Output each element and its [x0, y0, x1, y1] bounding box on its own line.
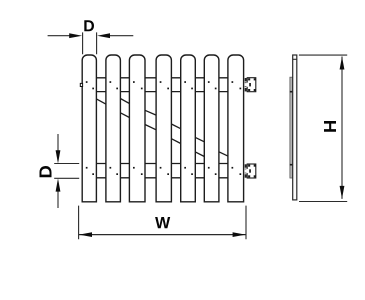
picket 7 [228, 55, 244, 202]
dimension D top: extension lines [83, 32, 97, 54]
screws picket 1 bottom rail [86, 167, 94, 175]
screws picket 6 bottom rail [208, 167, 217, 175]
dimension D left: leader lines [57, 134, 59, 208]
dimension H: line [341, 57, 343, 199]
picket 4 [156, 55, 171, 202]
dimension H: arrowheads [340, 57, 345, 199]
hinge top [245, 78, 256, 92]
screws picket 5 bottom rail [184, 167, 193, 175]
screws picket 3 bottom rail [133, 167, 143, 175]
picket 2 [106, 55, 121, 202]
picket 3 [129, 55, 145, 202]
label W [155, 217, 170, 228]
side view picket cap line [293, 58, 297, 60]
label D left (rotated) [40, 166, 52, 177]
hinge bottom [245, 164, 256, 178]
label D top [84, 20, 94, 31]
screws picket 5 top rail [184, 81, 193, 89]
screws picket 4 bottom rail [160, 167, 169, 175]
screws picket 2 bottom rail [110, 167, 119, 175]
dimension W: arrowheads [79, 232, 245, 237]
dimension D top: arrowheads [69, 33, 110, 38]
dimension W: line [79, 234, 246, 236]
label H (rotated) [324, 121, 336, 132]
side view rail marks [290, 91, 293, 166]
picket 6 [204, 55, 219, 202]
bottom rail [82, 164, 243, 178]
side view rail plane strip [290, 77, 293, 178]
latch pin [80, 83, 82, 86]
picket 1 [82, 55, 96, 202]
picket 5 [181, 55, 196, 202]
screws picket 7 top rail [232, 81, 242, 89]
top rail [82, 78, 243, 92]
screws picket 3 top rail [133, 81, 143, 89]
screws picket 2 top rail [110, 81, 119, 89]
dimension H: extension lines [299, 55, 347, 201]
side view picket bar [293, 55, 297, 200]
diagonal brace (board, two edges, segments per gap) [96, 99, 228, 157]
screws picket 7 bottom rail [232, 167, 242, 175]
screws picket 4 top rail [160, 81, 169, 89]
dimension D left: arrowheads [56, 150, 61, 191]
dimension D left: extension lines [54, 164, 79, 179]
dimension D top: leader lines [48, 35, 134, 37]
dimension W: extension lines [79, 206, 246, 240]
screws picket 1 top rail [86, 81, 94, 89]
screws picket 6 top rail [208, 81, 217, 89]
